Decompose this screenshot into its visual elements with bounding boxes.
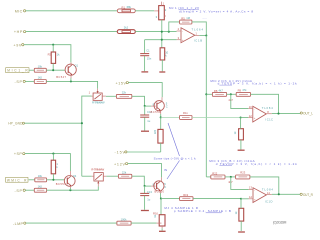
wire op2 output [272, 113, 300, 115]
resistor R8 [212, 89, 226, 97]
junction Q2 emitter row [160, 116, 162, 118]
capacitor C2 [140, 110, 152, 123]
node OUT_R label [300, 193, 313, 197]
svg-text:BC547: BC547 [56, 75, 66, 79]
node -15V label [115, 150, 128, 154]
svg-text:OUT_R: OUT_R [303, 193, 314, 197]
svg-text:Q4: Q4 [73, 174, 77, 178]
node +9V label [13, 43, 24, 47]
svg-text:R5: R5 [181, 16, 185, 20]
svg-text:IC1B: IC1B [194, 39, 202, 43]
op-amp IC1B triangle [177, 27, 204, 43]
wire minus node op3 drop [231, 177, 249, 190]
svg-text:-15V: -15V [115, 150, 126, 154]
svg-text:1k5: 1k5 [38, 184, 43, 188]
wire minus node drop [231, 94, 249, 108]
node OUT_L label [300, 112, 313, 116]
annotation A4 underline [206, 212, 222, 214]
node WMIC_R boxed label [6, 177, 28, 182]
node +15V label [116, 82, 129, 86]
node MIC1_R boxed label [6, 68, 29, 73]
svg-text:-: - [254, 189, 255, 192]
wire Q3 emitter stub [69, 188, 71, 190]
junction Q4 base node [144, 185, 146, 187]
junction plus row R20 tap [240, 198, 242, 200]
wire Q4 emitter down [160, 193, 162, 198]
wire plus row op3 left [161, 198, 180, 200]
wire base row Q1 [29, 69, 34, 71]
svg-text:13: 13 [249, 186, 252, 190]
wire -SP row left [25, 80, 34, 82]
resistor R4 vertical [160, 48, 169, 60]
svg-text:68k: 68k [127, 5, 132, 9]
junction Q4 emitter row [160, 198, 162, 200]
svg-text:100k: 100k [121, 217, 127, 221]
svg-text:MIC: MIC [15, 9, 23, 13]
svg-text:IC1D: IC1D [265, 199, 273, 203]
wire feedback right to output [192, 22, 206, 36]
wire R15 to Q3 base [47, 179, 65, 181]
svg-text:Q1: Q1 [75, 63, 79, 67]
wire between R22 R23 [225, 176, 236, 178]
node +HP label [14, 30, 26, 34]
ground bar R4 [159, 71, 165, 73]
trimpot R-TRIM1 [89, 89, 106, 105]
annotation leader line down [167, 161, 180, 180]
resistor R6 [34, 64, 46, 72]
svg-text:-SP: -SP [15, 80, 23, 84]
wire R3 to base row [52, 63, 54, 70]
wire R12 to -15V corner [160, 143, 162, 152]
resistor R2 [117, 25, 135, 33]
junction +SP R14 [52, 153, 54, 155]
junction op2 output feedback [277, 113, 279, 115]
svg-text:C: C [166, 105, 168, 109]
svg-text:1k5: 1k5 [38, 76, 43, 80]
wire R3 stubs [52, 45, 54, 52]
svg-text:(C) DG1SM: (C) DG1SM [273, 221, 287, 225]
svg-text:22k: 22k [122, 170, 127, 174]
svg-text:R1: R1 [122, 5, 126, 9]
wire base row Q3 [29, 179, 35, 181]
svg-text:-: - [254, 108, 255, 111]
node -SP2 label [15, 189, 26, 193]
junction base row R14 [52, 179, 54, 181]
wire HP_GND row [25, 122, 82, 124]
svg-text:OUT_L: OUT_L [303, 112, 313, 116]
wire row A right [135, 10, 154, 12]
transistor Q2 [151, 97, 168, 114]
resistor R18 [118, 170, 131, 178]
svg-text:BC550: BC550 [155, 189, 165, 193]
svg-text:+15V: +15V [116, 82, 127, 86]
capacitor C4 [140, 190, 152, 201]
resistor R22 [211, 171, 225, 179]
wire -15V row [127, 151, 161, 153]
resistor R5 feedback [180, 16, 192, 24]
transistor Q1 [56, 62, 78, 78]
svg-text:R19: R19 [183, 193, 188, 197]
svg-text:IC1C: IC1C [266, 117, 274, 121]
wire op1 plus row [145, 39, 177, 41]
wire op1 output [199, 35, 206, 37]
node +SP label [14, 152, 25, 156]
wire junction to op3 plus pin [241, 198, 249, 200]
op-amp IC1D triangle [249, 186, 274, 204]
wire node to Q2 base [145, 105, 151, 107]
wire +SP row [25, 154, 71, 171]
svg-text:+9V: +9V [13, 43, 22, 47]
svg-text:47k: 47k [242, 88, 247, 92]
wire Q1 emitter stub [70, 78, 72, 81]
svg-text:-: - [182, 30, 183, 33]
wire R14 stub bottom [52, 174, 54, 180]
junction HP_GND [81, 122, 83, 124]
junction op1 output [205, 34, 207, 36]
svg-text:+HP: +HP [14, 30, 23, 34]
pin jack left [154, 10, 159, 12]
svg-text:-LMP: -LMP [13, 222, 24, 226]
junction base row R3 [52, 69, 54, 71]
svg-text:d(freq)A = 2 V, Vo=set = 4 A,: d(freq)A = 2 V, Vo=set = 4 A, Av,Cs = 8 [179, 9, 253, 13]
junction row B feedback tap [168, 31, 170, 33]
wire long vertical bus [205, 36, 207, 177]
op-amp IC1C triangle [248, 105, 273, 122]
junction op3 output feedback [278, 193, 280, 195]
wire trimpot1 left to HP_GND vertical [82, 96, 92, 176]
wire R20 stubs [240, 199, 242, 231]
annotation A2 underline [219, 84, 232, 86]
wire -SP2 row left [25, 189, 34, 191]
svg-text:22k: 22k [122, 91, 127, 95]
wire node to Q4 base [145, 185, 151, 187]
svg-text:C13: C13 [147, 190, 152, 194]
wire node to C2 [144, 106, 146, 115]
wire R6 to Q1 base [46, 69, 65, 71]
wire row A left [26, 10, 118, 12]
wire R13 stubs [240, 118, 242, 150]
svg-text:TL064: TL064 [192, 28, 204, 32]
svg-text:IN: IN [164, 168, 167, 172]
resistor R14 vertical [51, 160, 58, 174]
svg-text:.....: ..... [203, 16, 207, 20]
wire feedback riser up [169, 22, 180, 32]
svg-text:12: 12 [249, 114, 252, 118]
svg-text:HP_GND: HP_GND [8, 122, 23, 126]
transistor Q4 [154, 177, 166, 193]
svg-text:BC550: BC550 [151, 110, 162, 114]
svg-text:10: 10 [249, 105, 252, 109]
wire junction to op2 plus pin [241, 117, 249, 119]
potentiometer R16 vertical [153, 211, 165, 226]
wire C2 to ground [144, 117, 146, 130]
svg-text:R8: R8 [214, 89, 218, 93]
junction plus row jack drop [161, 39, 163, 41]
junction minus node op3 [230, 176, 232, 178]
wire capacitor C1 riser [144, 40, 146, 53]
svg-text:R-TRIM64W: R-TRIM64W [91, 167, 104, 171]
annotation leader line up [168, 123, 180, 156]
resistor R13 vertical [233, 129, 243, 140]
svg-text:2k2: 2k2 [124, 25, 129, 29]
svg-text:1u: 1u [147, 119, 150, 123]
connector X1 mic jack [156, 1, 167, 19]
wire trimpot2 left to HP_GND vertical [82, 175, 92, 177]
resistor R7 [34, 76, 46, 84]
svg-text:R22: R22 [212, 171, 217, 175]
wire Q2 emitter down [160, 114, 162, 117]
wire +12V to Q4 collector [128, 164, 162, 178]
wire plus row op2 left [161, 116, 180, 118]
svg-text:C1: C1 [146, 49, 150, 53]
resistor R11 [180, 111, 193, 119]
resistor R23 [236, 171, 250, 179]
svg-text:1k5: 1k5 [153, 129, 157, 134]
wire R14 stub top [52, 154, 54, 161]
wire node to C4 [144, 186, 146, 193]
svg-text:12: 12 [249, 195, 252, 199]
svg-text:p SAMPLE = 0.4. SAMPLE = B: p SAMPLE = 0.4. SAMPLE = B [174, 209, 231, 213]
svg-text:TL084: TL084 [262, 106, 274, 110]
svg-text:C: C [164, 185, 166, 189]
svg-text:10k: 10k [38, 64, 43, 68]
wire jack bottom to rows [161, 20, 163, 48]
pin pot wiper [157, 222, 160, 224]
wire op3 output [272, 193, 300, 195]
wire R9 to output riser [251, 94, 279, 113]
svg-text:15n: 15n [147, 57, 152, 61]
ground bar R16 [159, 230, 166, 232]
resistor R1 [117, 5, 135, 13]
wire C4 to ground [144, 196, 146, 210]
junction row B jack [161, 31, 163, 33]
wire plus row op3 right [193, 198, 241, 200]
wire C1 to ground [144, 56, 146, 71]
svg-text:R9: R9 [238, 88, 242, 92]
wire op2 minus row a [206, 93, 212, 95]
wire +15V to Q2 collector [128, 83, 162, 98]
trimpot R-TRIM2 [91, 167, 106, 186]
wire R18 to corner down [132, 176, 145, 186]
svg-text:14: 14 [267, 191, 270, 195]
resistor R17 [34, 184, 46, 192]
wire R23 to output riser [250, 177, 279, 194]
svg-text:BC557: BC557 [56, 182, 66, 186]
ground bar C4 [141, 210, 149, 212]
node +12V label [114, 162, 128, 166]
resistor R9 [236, 88, 250, 96]
resistor R15 [35, 174, 47, 182]
node HP_GND label [8, 122, 24, 126]
node -SP label [15, 80, 26, 84]
resistor R12 vertical [153, 129, 163, 143]
wire -LMP row left [26, 222, 117, 224]
wire row B to op-amp minus [135, 31, 176, 33]
capacitor C1 [140, 49, 152, 61]
wire plus row op2 right [192, 116, 241, 118]
pin Q2 base [151, 105, 156, 107]
ground bar C2 [141, 130, 149, 132]
wire trimpot1 right [106, 95, 117, 97]
pin Q4 base [151, 185, 156, 187]
wire Q2 emitter to R12 [160, 117, 162, 129]
svg-text:TL084: TL084 [262, 187, 274, 191]
svg-text:R23: R23 [240, 171, 245, 175]
node -LMP label [13, 222, 26, 226]
wire R10 to corner down [132, 96, 145, 106]
wire -LMP row to pot wiper [131, 222, 157, 224]
svg-text:10k: 10k [38, 174, 43, 178]
svg-text:+12V: +12V [114, 162, 126, 166]
svg-text:4k7: 4k7 [219, 89, 224, 93]
resistor R19 [180, 193, 193, 201]
wire bus corner to op3 row [206, 176, 211, 178]
resistor R3 vertical [48, 52, 60, 63]
junction Q1 emitter [70, 80, 72, 82]
svg-text:R16: R16 [153, 211, 158, 215]
annotation A1 underline [179, 9, 200, 11]
junction bus op2 row [205, 93, 207, 95]
wire row B left [26, 31, 118, 33]
svg-text:1u: 1u [147, 197, 150, 201]
svg-text:Some tips (~3V) @ x < 1 k: Some tips (~3V) @ x < 1 k [154, 157, 197, 161]
resistor R21 [117, 217, 131, 225]
wire trimpot2 right [106, 175, 118, 177]
transistor Q3 [56, 171, 77, 188]
annotation A3 underline [219, 164, 232, 166]
junction plus row R13 tap [240, 116, 242, 118]
wire -SP2 row to trimpot2 wiper [47, 186, 99, 190]
wire R4 to ground [161, 60, 163, 71]
junction minus node op2 [230, 93, 232, 95]
svg-text:R3: R3 [48, 53, 52, 57]
node MIC label [15, 9, 26, 13]
junction Q2 base node [144, 105, 146, 107]
resistor R20 vertical [234, 208, 244, 221]
svg-text:-SP: -SP [15, 189, 23, 193]
ground bar R13 [238, 149, 245, 151]
svg-text:+SP: +SP [14, 152, 23, 156]
ground bar R20 [238, 231, 245, 233]
junction +9V R3 [52, 44, 54, 46]
wire -SP row to trimpot riser [46, 81, 97, 88]
junction Q3 emitter [69, 189, 71, 191]
svg-text:R-TRIM64W: R-TRIM64W [92, 100, 105, 104]
wire emitter node to pot R16 [160, 199, 162, 215]
ground bar C1 [141, 71, 148, 73]
wire R16 to ground [161, 226, 163, 228]
wire +9V row [24, 45, 71, 63]
wire between R8 R9 [227, 93, 237, 95]
resistor R10 [116, 91, 131, 99]
svg-text:R11: R11 [183, 111, 188, 115]
